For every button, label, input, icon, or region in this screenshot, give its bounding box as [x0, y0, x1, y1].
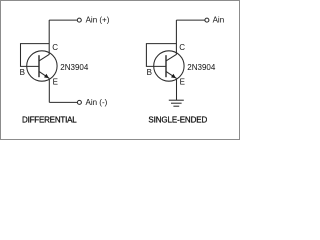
svg-text:Ain (+): Ain (+) [86, 16, 110, 25]
transistor Q2 collector diagonal [166, 54, 176, 61]
wire: right base-collector feedback loop [146, 44, 176, 67]
wire: left top collector to Ain(+) terminal [49, 19, 77, 21]
wire: left emitter vertical [48, 78, 50, 102]
terminal Ain [205, 18, 209, 22]
svg-text:B: B [147, 68, 152, 77]
ground [169, 99, 184, 101]
transistor Q1 base bar [38, 55, 40, 77]
svg-text:2N3904: 2N3904 [187, 63, 216, 72]
border frame [1, 1, 240, 140]
transistor Q1 emitter arrowhead [44, 74, 49, 78]
wire: left bottom to Ain(-) terminal [49, 101, 77, 103]
wire: right emitter vertical to ground [176, 78, 178, 100]
svg-text:C: C [179, 43, 185, 52]
wire: left collector vertical [48, 20, 50, 55]
terminal Ain(-) [77, 100, 81, 104]
svg-text:Ain: Ain [213, 16, 225, 25]
svg-text:C: C [52, 43, 58, 52]
svg-text:SINGLE-ENDED: SINGLE-ENDED [148, 116, 207, 125]
wire: right collector vertical [175, 20, 177, 55]
transistor Q2 emitter arrowhead [171, 74, 176, 78]
wire: right top collector to Ain terminal [176, 19, 204, 21]
transistor Q2 emitter diagonal [166, 71, 177, 78]
svg-text:E: E [53, 77, 58, 86]
svg-text:2N3904: 2N3904 [60, 63, 89, 72]
svg-text:E: E [180, 77, 185, 86]
transistor Q1 emitter diagonal [39, 71, 49, 78]
transistor Q1 collector diagonal [39, 54, 49, 61]
transistor Q1 circle [27, 51, 57, 81]
terminal Ain(+) [77, 18, 81, 22]
svg-text:B: B [20, 68, 25, 77]
svg-text:Ain (-): Ain (-) [86, 98, 108, 107]
svg-text:DIFFERENTIAL: DIFFERENTIAL [22, 116, 77, 125]
transistor Q2 base bar [165, 55, 167, 77]
transistor Q2 circle [154, 51, 184, 81]
wire: left base-collector feedback loop [21, 44, 50, 67]
